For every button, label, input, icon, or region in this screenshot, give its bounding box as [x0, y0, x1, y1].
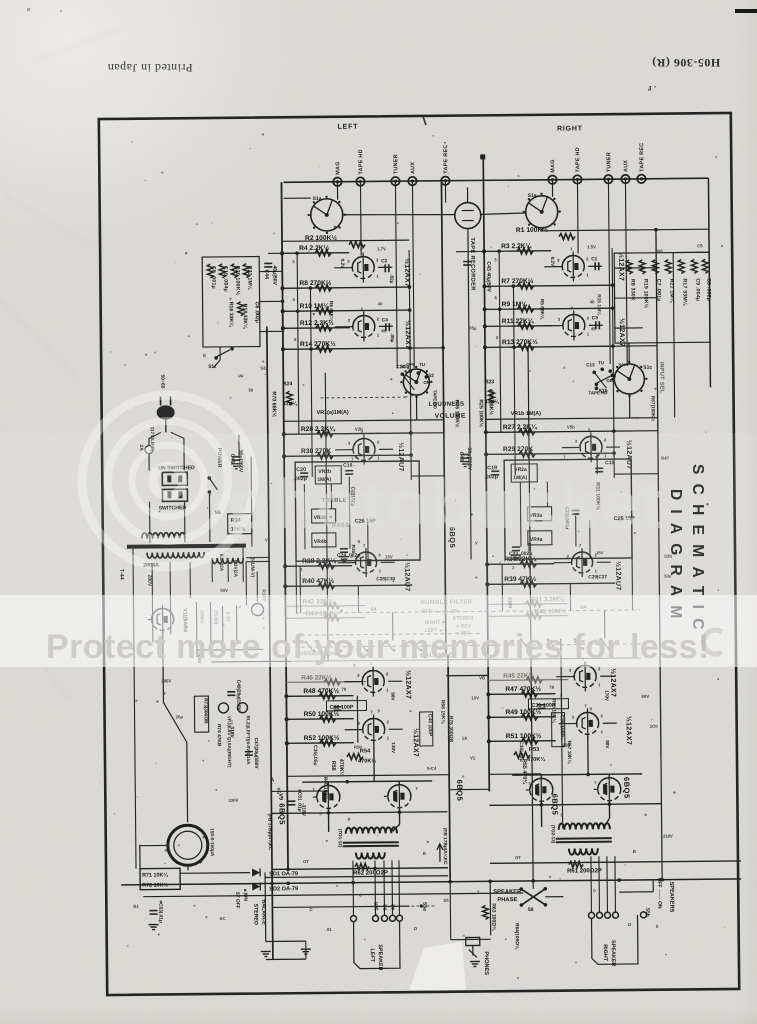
wire row	[286, 695, 353, 698]
capacitor C19	[491, 470, 499, 472]
wire row r2	[282, 240, 409, 241]
svg-text:VOLUME: VOLUME	[435, 413, 466, 420]
ground G1	[149, 924, 159, 926]
svg-text:VR1b 1M(A): VR1b 1M(A)	[511, 411, 542, 417]
svg-text:R24: R24	[282, 381, 292, 387]
wire phones bus	[449, 882, 451, 906]
wire	[615, 327, 643, 329]
node input terminal TUNER	[604, 175, 612, 183]
wire row	[283, 327, 350, 330]
wire	[501, 564, 503, 611]
svg-text:B1: B1	[133, 904, 139, 909]
capacitor C31	[537, 704, 545, 706]
svg-text:R7 270K½: R7 270K½	[501, 277, 533, 285]
wire band link	[327, 640, 329, 642]
wire rail	[576, 179, 579, 253]
svg-text:6BQ5: 6BQ5	[622, 777, 631, 799]
svg-text:½12AX7: ½12AX7	[404, 670, 412, 699]
capacitor C9	[691, 259, 697, 273]
svg-text:C1: C1	[591, 256, 598, 262]
wire row	[284, 455, 411, 456]
node speaker terminal L	[389, 915, 395, 921]
wire	[151, 603, 153, 643]
svg-text:170V: 170V	[604, 690, 609, 702]
node dots rails	[408, 285, 412, 289]
wire T44 taps	[132, 549, 135, 603]
svg-text:R8 270K½: R8 270K½	[299, 279, 331, 287]
svg-text:R71 10K¼: R71 10K¼	[142, 871, 168, 878]
wire selector link2	[481, 213, 526, 214]
tube V5a	[580, 436, 602, 458]
svg-text:LEFT: LEFT	[338, 124, 359, 131]
svg-text:INPUT SEL: INPUT SEL	[658, 362, 664, 394]
wire row	[488, 693, 555, 696]
wire rail	[325, 373, 328, 661]
wire	[614, 267, 656, 269]
resistor R40	[318, 583, 334, 589]
resistor R34	[228, 514, 252, 534]
node input terminal MAG	[548, 175, 556, 183]
svg-text:R73|300ΩB: R73|300ΩB	[202, 698, 208, 724]
svg-text:50: 50	[248, 388, 253, 393]
wire row	[488, 615, 568, 618]
resistor R50	[320, 716, 336, 722]
box R71 R72	[140, 868, 180, 889]
wire	[569, 584, 571, 611]
svg-text:R22 1M¼: R22 1M¼	[246, 266, 253, 290]
svg-text:≠C53|.01μ: ≠C53|.01μ	[157, 900, 163, 922]
svg-text:ON: ON	[423, 380, 430, 385]
resistor R44	[324, 615, 340, 621]
svg-text:R16 33K¼: R16 33K¼	[228, 302, 235, 328]
svg-text:MAG: MAG	[335, 161, 341, 175]
capacitor C8	[207, 264, 213, 278]
switch S2 cluster	[400, 372, 404, 376]
tube V7a	[362, 670, 384, 692]
svg-text:R56: R56	[330, 761, 336, 771]
resistor R3	[517, 248, 533, 254]
svg-text:Ω: Ω	[628, 922, 632, 927]
wire right inner rail	[708, 178, 710, 387]
resistor R48	[319, 693, 335, 699]
svg-text:SPEAKER: SPEAKER	[377, 944, 383, 970]
resistor R38	[318, 563, 334, 569]
wire	[284, 197, 311, 199]
svg-text:½12AX7: ½12AX7	[403, 258, 411, 287]
capacitor C46	[232, 456, 240, 458]
wire s1b up	[640, 178, 642, 180]
wire V11 down	[162, 634, 165, 702]
svg-text:470K¼: 470K¼	[338, 759, 345, 777]
svg-text:V2b: V2b	[355, 427, 363, 432]
resistor R42	[323, 603, 339, 609]
svg-text:R21 1M¼: R21 1M¼	[668, 279, 675, 303]
wire row	[485, 346, 613, 347]
svg-text:.05μ: .05μ	[390, 333, 395, 342]
svg-text:S7 OFF: S7 OFF	[234, 892, 240, 909]
node input terminal TUNER	[391, 177, 399, 185]
wire row	[282, 252, 349, 255]
svg-text:S1a: S1a	[528, 193, 537, 199]
wire c44 link	[268, 252, 282, 254]
capacitor C2	[384, 264, 386, 272]
capacitor C5	[702, 259, 708, 273]
svg-text:SPEAKERS: SPEAKERS	[668, 882, 674, 913]
svg-text:S8: S8	[527, 907, 533, 913]
wire volume drop	[415, 395, 417, 420]
wire	[271, 868, 273, 870]
node speaker terminal L	[350, 916, 356, 922]
capacitor C10	[219, 264, 225, 278]
wire row	[484, 250, 551, 253]
wire V5a stubs	[562, 446, 576, 448]
wire V8b stubs	[559, 723, 573, 725]
node input terminal TAPE REC	[441, 176, 449, 184]
svg-text:R4 2.2K½: R4 2.2K½	[299, 244, 330, 252]
svg-text:≠C51 .01μ: ≠C51 .01μ	[296, 789, 302, 811]
ground G8	[460, 461, 470, 463]
svg-text:C49|20μ|150V: C49|20μ|150V	[235, 680, 241, 712]
wire T44 cluster	[195, 602, 198, 657]
svg-text:1.5V: 1.5V	[587, 244, 596, 249]
svg-text:130V: 130V	[391, 742, 396, 754]
wire tone internals L	[303, 484, 306, 549]
tube V5	[530, 778, 553, 801]
svg-text:1C0: 1C0	[650, 724, 659, 729]
svg-text:V5b: V5b	[567, 425, 575, 430]
wire V2a stubs	[335, 449, 349, 451]
lamp VPJ	[218, 703, 228, 713]
svg-text:TU: TU	[598, 360, 604, 365]
wire rail	[513, 286, 515, 475]
ground G3	[301, 948, 311, 950]
wire row	[283, 310, 410, 311]
wire row	[282, 287, 409, 288]
wire rail	[640, 178, 642, 180]
wire bottom left rails	[264, 873, 267, 942]
jack tape recorder	[455, 202, 481, 228]
svg-text:C6 .002μ: C6 .002μ	[254, 302, 260, 323]
switch contact S3	[413, 640, 420, 650]
tube V8a	[574, 665, 596, 687]
svg-text:S1c: S1c	[643, 365, 652, 371]
wire screen bus right	[490, 861, 741, 863]
node ladder dots	[295, 251, 299, 255]
transformer T1 primary	[346, 827, 397, 833]
wire V1b stubs	[335, 326, 349, 328]
wire rail	[412, 181, 414, 368]
svg-text:C5 .002μ: C5 .002μ	[705, 278, 711, 301]
svg-text:R10 1M¼: R10 1M¼	[300, 302, 330, 310]
wire power drops	[149, 502, 151, 543]
pot VR3a	[528, 507, 552, 521]
switch contact S3	[359, 641, 366, 651]
wire fb arrow L	[437, 844, 443, 862]
tube V6	[598, 778, 621, 801]
svg-text:OFF: OFF	[406, 362, 415, 367]
ground G2	[261, 950, 271, 952]
svg-text:C40 100P: C40 100P	[427, 714, 433, 737]
svg-text:R63 100Ω¼: R63 100Ω¼	[490, 903, 497, 931]
wire row	[487, 583, 615, 584]
wire rail	[673, 253, 675, 418]
svg-text:R28 2.2K¼: R28 2.2K¼	[301, 425, 336, 433]
wire	[260, 330, 283, 332]
fuse F1	[145, 446, 153, 454]
resistor R17	[678, 259, 684, 273]
plug AC	[157, 405, 175, 419]
wire V8b to outputs	[587, 736, 589, 774]
lamp RL2	[237, 703, 247, 713]
svg-text:SD1 OA-79: SD1 OA-79	[269, 871, 298, 877]
svg-text:V9: V9	[277, 793, 283, 800]
svg-text:R14 270K½: R14 270K½	[300, 340, 336, 348]
wire	[392, 612, 394, 640]
svg-text:S5: S5	[443, 898, 449, 903]
node J1	[480, 154, 485, 159]
svg-text:TUNER: TUNER	[393, 154, 399, 174]
switch S1a right	[526, 196, 558, 228]
switch contact S3	[521, 639, 528, 649]
wire row	[486, 431, 614, 432]
wire driver connector	[356, 696, 358, 743]
svg-text:C3: C3	[592, 315, 599, 321]
resistor R54	[347, 754, 363, 760]
svg-text:RL2|(LEFT)|6-8V Q15A: RL2|(LEFT)|6-8V Q15A	[246, 716, 251, 765]
wire rail	[625, 179, 627, 366]
wire V4a stubs	[544, 266, 558, 268]
wire out bus L	[287, 868, 289, 870]
svg-text:10V: 10V	[471, 695, 479, 700]
svg-text:8Ω: 8Ω	[382, 904, 387, 911]
wire S1a to terminal	[336, 182, 338, 200]
wire V8a stubs	[556, 676, 570, 678]
svg-text:40: 40	[590, 299, 595, 304]
wire row	[287, 718, 354, 721]
svg-text:R46 22K¼: R46 22K¼	[301, 673, 332, 681]
wire bottom bus2	[143, 893, 523, 897]
resistor R41	[525, 601, 541, 607]
svg-text:79: 79	[341, 687, 346, 692]
svg-text:S4a: S4a	[618, 362, 626, 367]
wire top input bus	[283, 178, 708, 182]
svg-text:1A: 1A	[462, 736, 468, 741]
svg-text:R3 2.2K¼: R3 2.2K¼	[501, 242, 533, 250]
tube V9	[317, 785, 340, 808]
resistor R29	[519, 451, 535, 457]
tube V2a	[353, 438, 375, 460]
wire rail	[499, 251, 501, 432]
wire	[287, 775, 449, 777]
wire row	[283, 348, 410, 349]
wire row	[485, 325, 552, 328]
node speaker terminal L	[372, 915, 378, 921]
pot VR1a	[284, 420, 444, 422]
resistor R28	[317, 431, 333, 437]
wire row	[488, 603, 568, 606]
capacitor C44	[264, 262, 272, 264]
node speaker terminal R	[588, 912, 594, 918]
ground G7	[231, 463, 241, 465]
wire rumble dashed 1	[296, 610, 641, 613]
tube V3a	[355, 552, 376, 573]
resistor R1	[559, 233, 575, 239]
tube V7b	[363, 718, 385, 740]
resistor R12	[316, 325, 332, 331]
transformer T2 core	[556, 837, 612, 840]
svg-text:+: +	[175, 860, 179, 866]
wire volume link	[404, 395, 416, 397]
svg-text:½12AX7: ½12AX7	[412, 728, 420, 757]
node speaker terminal R	[612, 912, 618, 918]
switch S1f	[216, 350, 230, 357]
box right EQ network	[614, 252, 710, 343]
node speaker terminal R	[596, 912, 602, 918]
svg-text:20μ: 20μ	[176, 714, 184, 719]
wire V7b stubs	[345, 729, 359, 731]
resistor R47	[521, 691, 537, 697]
svg-text:(TO2-12): (TO2-12)	[551, 825, 556, 844]
transformer T44 primary	[142, 533, 185, 539]
resistor R43	[526, 613, 542, 619]
switch S4 cluster	[592, 371, 596, 375]
svg-text:C35|.05μ: C35|.05μ	[312, 745, 318, 766]
svg-text:R61 200Ω2P: R61 200Ω2P	[567, 868, 602, 874]
wire row	[284, 433, 411, 434]
wire	[272, 906, 353, 909]
wire	[169, 602, 171, 634]
pot VR4b	[312, 533, 336, 547]
wire selector link	[343, 214, 455, 216]
capacitor bank	[168, 825, 208, 865]
svg-text:R45 22K¼: R45 22K¼	[503, 671, 534, 679]
svg-text:.01: .01	[326, 927, 333, 932]
svg-text:(TO1-12): (TO1-12)	[338, 829, 343, 848]
svg-text:150-0-150μA: 150-0-150μA	[209, 828, 215, 857]
svg-text:½12AX7: ½12AX7	[404, 320, 412, 349]
svg-text:R51 100K½: R51 100K½	[506, 732, 542, 740]
watermark logo rings	[82, 395, 254, 567]
svg-text:MAG: MAG	[550, 159, 556, 173]
wire speaker L loop	[354, 921, 400, 968]
switch contact S3	[601, 638, 608, 648]
svg-text:R70 68K½: R70 68K½	[270, 391, 277, 417]
wire	[353, 905, 409, 908]
wire row	[486, 453, 614, 454]
tube V8b	[577, 712, 599, 734]
svg-text:C47|20μ|550V: C47|20μ|550V	[253, 738, 259, 770]
capacitor C16	[345, 470, 353, 472]
svg-text:.02μ: .02μ	[389, 274, 394, 283]
wire mid link2	[613, 345, 657, 347]
wire V7b to outputs	[373, 742, 375, 781]
capacitor C23	[512, 546, 520, 548]
resistor R10	[316, 308, 332, 314]
wire rumble dashed 2	[301, 633, 481, 635]
switch contact S3	[333, 641, 340, 651]
wire	[305, 941, 307, 959]
resistor R21	[665, 260, 671, 274]
resistor R24	[286, 391, 292, 405]
svg-text:R23: R23	[484, 379, 494, 385]
node input terminal MAG	[333, 178, 341, 186]
capacitor C1	[594, 262, 596, 270]
pot VR4a	[528, 531, 552, 545]
capacitor C20	[300, 472, 308, 474]
capacitor C3	[595, 321, 597, 329]
switch speaker phase	[521, 889, 545, 905]
wire input sel stub	[628, 343, 630, 364]
wire	[604, 610, 606, 638]
svg-text:TAPE REC: TAPE REC	[639, 143, 645, 172]
resistor R51	[522, 738, 538, 744]
svg-text:R72 10K½: R72 10K½	[142, 881, 168, 888]
resistor R49	[522, 714, 538, 720]
svg-text:0.2V: 0.2V	[340, 259, 345, 269]
svg-text:90V: 90V	[605, 740, 610, 749]
wire	[238, 435, 240, 457]
svg-text:470K¼: 470K¼	[527, 756, 546, 763]
resistor R18	[238, 302, 244, 316]
svg-text:98V: 98V	[390, 692, 395, 701]
wire	[271, 790, 328, 793]
tube V10	[388, 785, 411, 808]
svg-text:R25 100K½: R25 100K½	[478, 399, 485, 427]
svg-text:40: 40	[378, 301, 383, 306]
svg-text:TAPE HD: TAPE HD	[588, 390, 607, 395]
svg-text:+: +	[199, 860, 203, 866]
wire eq feed R	[615, 297, 657, 299]
svg-text:STEREO: STEREO	[252, 904, 258, 925]
svg-text:V1: V1	[470, 755, 476, 760]
svg-text:R74 47KB: R74 47KB	[216, 724, 222, 747]
ground G4	[470, 960, 480, 962]
svg-text:S: S	[656, 924, 659, 929]
resistor R4	[315, 250, 331, 256]
capacitor C24	[340, 548, 348, 550]
diode SD1	[252, 869, 260, 877]
svg-text:R62 200Ω2P: R62 200Ω2P	[353, 870, 388, 876]
glare patch	[409, 942, 466, 991]
wire V1a stubs	[334, 267, 348, 269]
svg-text:R9 1M¼: R9 1M¼	[502, 300, 529, 308]
wire output plate R	[489, 804, 661, 806]
wire	[596, 453, 598, 474]
node speaker terminal R	[604, 912, 610, 918]
wire rail	[310, 288, 312, 477]
resistor R8	[315, 285, 331, 291]
transformer T2 primary	[559, 823, 610, 829]
resistor R30	[317, 453, 333, 459]
svg-text:½12AX7: ½12AX7	[609, 668, 617, 697]
ground G5	[339, 556, 349, 558]
wire row	[286, 617, 366, 620]
resistor R73	[194, 696, 208, 732]
wire	[489, 773, 541, 775]
border frame	[99, 113, 739, 995]
wire plug wires	[149, 432, 161, 445]
svg-text:50~60: 50~60	[159, 374, 165, 388]
svg-text:OT: OT	[303, 859, 309, 864]
pot VR2a	[511, 464, 537, 482]
box left EQ network	[202, 257, 260, 348]
svg-text:B: B	[633, 849, 636, 854]
capacitor C4	[385, 323, 387, 331]
node input terminal TAPE HD	[573, 175, 581, 183]
tube V1b	[353, 315, 375, 337]
pot VR3b	[312, 509, 336, 523]
capacitor C43	[463, 260, 471, 262]
